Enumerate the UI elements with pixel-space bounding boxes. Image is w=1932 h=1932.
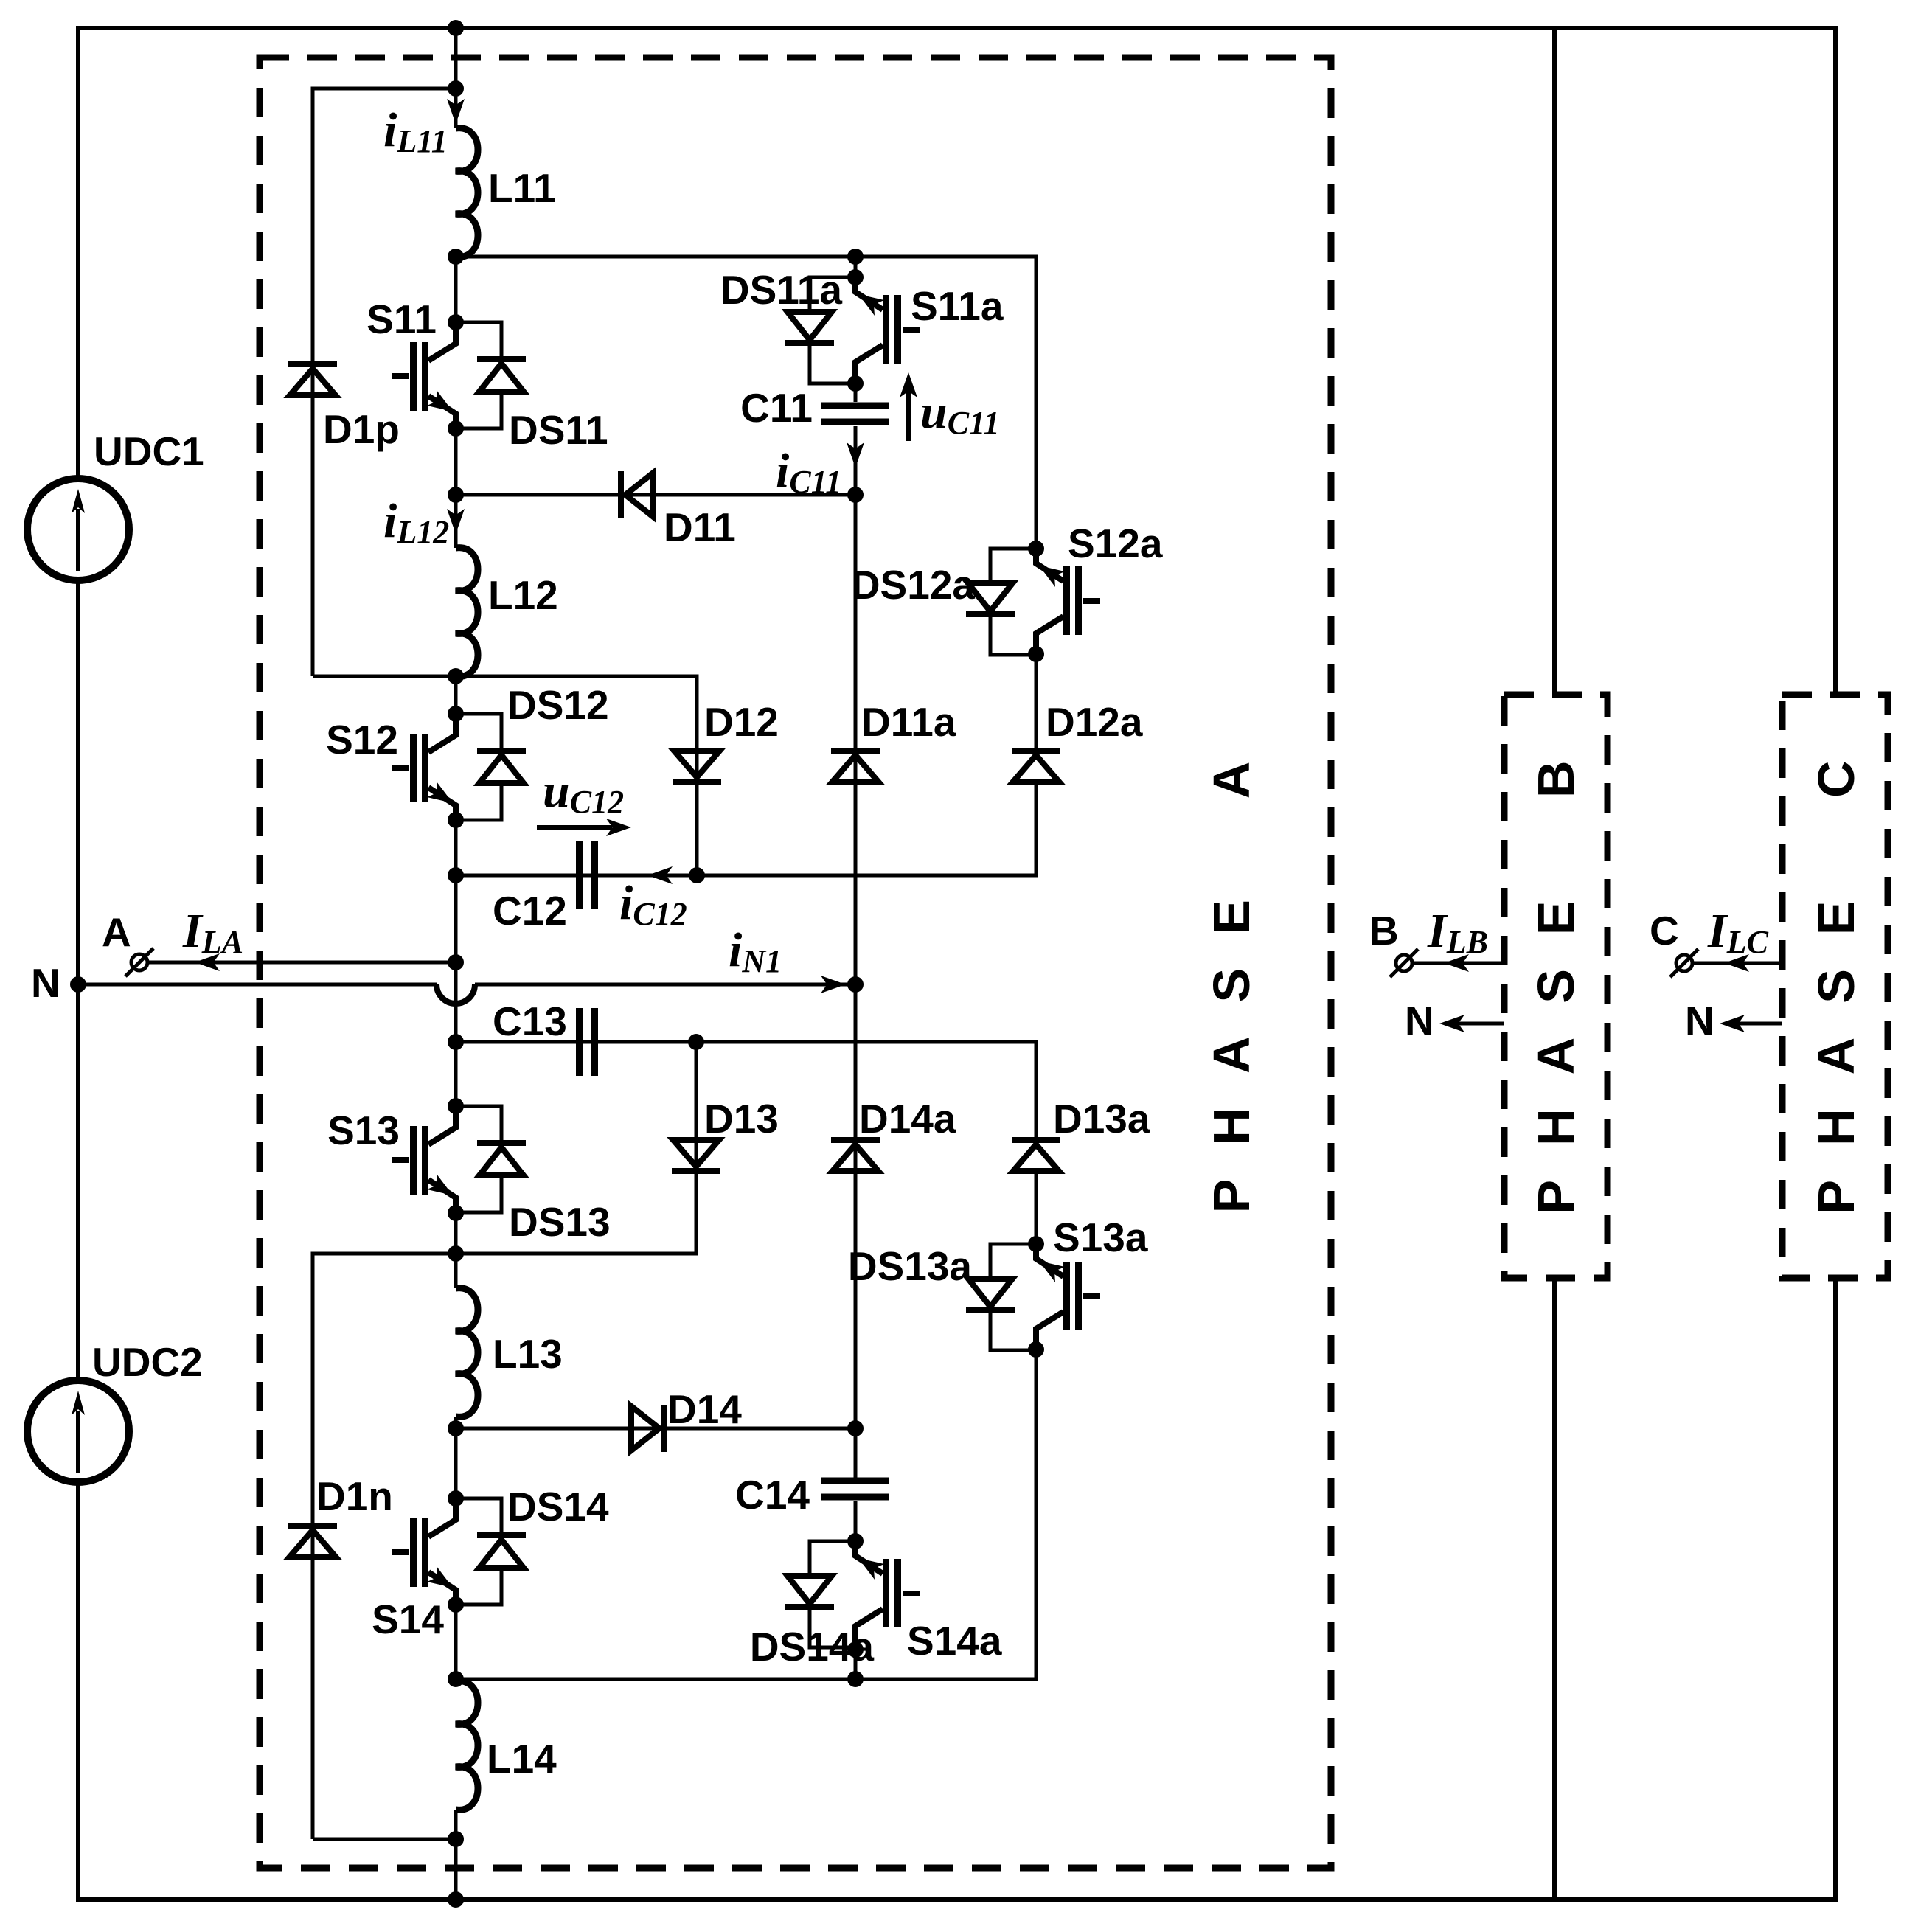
node S12a top — [1028, 541, 1044, 557]
wire phase B output — [1412, 962, 1504, 965]
transistor S12a — [1036, 549, 1100, 655]
svg-text:DS11a: DS11a — [720, 267, 843, 313]
svg-text:L11: L11 — [488, 165, 556, 211]
wire N rail left — [78, 983, 437, 987]
transistor S13 — [392, 1106, 456, 1212]
svg-text:DS12: DS12 — [507, 682, 609, 728]
diode DS11a loop — [810, 277, 855, 383]
node C13 left — [448, 1034, 464, 1050]
node S14 collector — [448, 1490, 464, 1507]
svg-text:D1p: D1p — [323, 406, 400, 452]
svg-text:S13: S13 — [327, 1108, 400, 1153]
node S11a top (DS11a) — [847, 269, 864, 285]
svg-text:D1n: D1n — [316, 1473, 393, 1519]
svg-text:B: B — [1369, 908, 1399, 953]
wire L12 to S12 — [454, 676, 458, 714]
svg-text:C12: C12 — [493, 888, 567, 934]
arrow I_LC (left) — [1724, 954, 1749, 972]
node bottom bus junction — [448, 1891, 464, 1908]
wire S12 to C12 node — [454, 820, 458, 875]
diode D11a — [831, 751, 880, 782]
transistor S14a — [855, 1541, 920, 1647]
arrow i_N1 (right) — [821, 976, 846, 993]
transistor S14 — [392, 1498, 456, 1605]
inductor L13 — [456, 1288, 478, 1417]
wire D11 node to L12 — [454, 495, 458, 548]
arrow i_C12 (left) — [647, 866, 673, 884]
node S12 emitter — [448, 812, 464, 828]
wire phase B column — [1552, 28, 1557, 1900]
capacitor C14 — [821, 1481, 889, 1497]
arrow u_C12 (right) — [537, 825, 612, 830]
svg-text:DS13a: DS13a — [848, 1243, 973, 1289]
arrow N phase C head — [1720, 1015, 1745, 1032]
svg-text:S12: S12 — [326, 717, 398, 762]
svg-text:PHASE A: PHASE A — [1203, 728, 1260, 1214]
node C13 / D13 — [688, 1034, 704, 1050]
PHASE C dashed box — [1782, 695, 1888, 1278]
wire left border (UDC column mid) — [76, 580, 80, 1380]
node S14 emitter — [448, 1596, 464, 1613]
wire phase C output — [1692, 962, 1782, 965]
svg-text:D11a: D11a — [861, 699, 956, 745]
svg-text:D13a: D13a — [1053, 1096, 1150, 1142]
wire S14 to bottom rail — [454, 1605, 458, 1681]
diode D12 — [673, 751, 721, 782]
svg-text:D14: D14 — [667, 1386, 742, 1432]
wire D14 node to C14 — [854, 1428, 858, 1478]
svg-text:DS12a: DS12a — [851, 562, 976, 608]
node bottom rail junction — [448, 1671, 464, 1687]
transistor S11 — [392, 322, 456, 428]
terminal A — [131, 954, 147, 970]
inductor L14 — [456, 1681, 478, 1810]
svg-text:L14: L14 — [487, 1736, 557, 1782]
wire L11 bottom to S11 — [454, 257, 458, 322]
wire neutral column lower — [854, 984, 858, 1428]
svg-text:C13: C13 — [493, 998, 567, 1044]
svg-text:S11: S11 — [366, 296, 437, 342]
svg-text:S12a: S12a — [1068, 521, 1163, 566]
arrow u_C11 head — [900, 372, 917, 397]
source UDC1 — [27, 479, 129, 580]
node top bus / branch — [448, 20, 464, 36]
node L13 bottom / D14 row — [448, 1420, 464, 1436]
diode D11 — [621, 471, 653, 518]
wire D11 row — [456, 493, 855, 497]
node D11 right (C11 column) — [847, 487, 864, 503]
svg-text:C14: C14 — [735, 1472, 810, 1518]
wire C14 to S14a — [854, 1501, 858, 1541]
transistor S12 — [392, 714, 456, 820]
arrow i_L11 (down) — [447, 99, 465, 124]
svg-text:S14a: S14a — [907, 1618, 1002, 1664]
node N at left border — [70, 976, 86, 993]
svg-text:A: A — [102, 909, 131, 955]
wire S11a collector stub — [854, 257, 858, 277]
wire C12 row — [456, 782, 1036, 875]
diode DS13a loop — [990, 1244, 1036, 1350]
wire D13a to S13a — [1035, 1171, 1038, 1244]
arrow I_LA (left) — [195, 953, 220, 971]
terminal C — [1676, 955, 1692, 971]
diode D13a — [1012, 1140, 1060, 1171]
diode D1p — [288, 364, 337, 395]
node aux rail / S11a — [847, 249, 864, 265]
transistor S13a — [1036, 1244, 1100, 1350]
node D14 right (C14 column) — [847, 1420, 864, 1436]
svg-text:L12: L12 — [488, 572, 558, 618]
svg-text:D12a: D12a — [1046, 699, 1143, 745]
wire C13 row — [456, 1042, 1036, 1140]
PHASE B dashed box — [1504, 695, 1608, 1278]
svg-text:UDC2: UDC2 — [92, 1339, 203, 1385]
wire bottom rail — [456, 1349, 1036, 1679]
wire S14a to bottom rail — [854, 1650, 858, 1679]
wire N hop arc — [437, 984, 475, 1004]
wire C13 node to S13 — [454, 1042, 458, 1106]
wire S11a to C11 — [854, 383, 858, 402]
node S13a bottom — [1028, 1341, 1044, 1358]
wire L14 to bottom bus — [454, 1810, 458, 1900]
diode D12a — [1012, 751, 1060, 782]
svg-text:S13a: S13a — [1053, 1215, 1148, 1260]
node upper loop branch — [448, 80, 464, 97]
svg-text:DS14: DS14 — [507, 1484, 609, 1529]
svg-text:DS11: DS11 — [509, 407, 608, 453]
svg-text:N: N — [1685, 998, 1714, 1043]
wire N rail right — [475, 983, 855, 987]
capacitor C11 — [821, 406, 889, 422]
node C12 left — [448, 867, 464, 883]
svg-text:C11: C11 — [740, 385, 813, 431]
wire N into phase C — [1727, 1022, 1782, 1026]
svg-text:N: N — [31, 960, 60, 1006]
PHASE A dashed box — [260, 58, 1331, 1868]
wire D14 row — [456, 1427, 855, 1431]
wire L13 node to S14 — [454, 1428, 458, 1498]
svg-text:S14: S14 — [372, 1596, 444, 1642]
svg-text:D13: D13 — [704, 1096, 779, 1142]
wire S11 to D11 node — [454, 428, 458, 495]
wire phase A output — [148, 961, 456, 965]
arrow u_C11 line — [906, 380, 911, 441]
diode D14a — [831, 1140, 880, 1171]
wire N into phase B — [1447, 1022, 1504, 1026]
diode DS12a loop — [990, 549, 1036, 655]
inductor L11 — [456, 128, 478, 257]
node S11 emitter — [448, 420, 464, 437]
arrow i_C11 (down) — [847, 442, 864, 468]
wire main branch: bus to L11 — [454, 28, 458, 128]
wire lower rail — [313, 1042, 696, 1254]
wire node to A-wire — [454, 875, 458, 1042]
capacitor C12 — [580, 841, 594, 909]
svg-text:UDC1: UDC1 — [94, 428, 204, 474]
diode DS12 loop — [456, 714, 501, 820]
node S12a bottom — [1028, 646, 1044, 662]
diode D1n — [288, 1526, 337, 1557]
node S14a top — [847, 1533, 864, 1549]
svg-text:D12: D12 — [704, 699, 779, 745]
diode D13 — [672, 1140, 720, 1171]
wire bottom DC- bus with side borders — [78, 1278, 1835, 1900]
arrow i_L12 (down) — [447, 509, 465, 534]
node S11 collector — [448, 314, 464, 330]
diode DS14a loop — [810, 1541, 855, 1647]
svg-text:PHASE B: PHASE B — [1527, 726, 1585, 1214]
diode D14 — [631, 1405, 664, 1452]
wire L13 coil to D14 node — [454, 1417, 458, 1428]
node lower rail junction — [448, 1245, 464, 1262]
diode DS14 loop — [456, 1498, 501, 1605]
node N / neutral column — [847, 976, 864, 993]
wire lower loop horizontal — [313, 1838, 456, 1841]
svg-text:L13: L13 — [493, 1331, 563, 1377]
node L12 bottom — [448, 668, 464, 684]
svg-text:PHASE C: PHASE C — [1807, 726, 1865, 1214]
node S13 collector — [448, 1098, 464, 1114]
svg-text:S11a: S11a — [911, 283, 1004, 329]
source UDC2 — [27, 1380, 129, 1482]
node S14a / bottom rail — [847, 1671, 864, 1687]
node C12 / D12 — [689, 867, 705, 883]
node D11 left — [448, 487, 464, 503]
node L14 bottom — [448, 1831, 464, 1847]
node S11a bottom — [847, 375, 864, 392]
arrow I_LB (left) — [1444, 954, 1469, 972]
node S14a bottom — [847, 1641, 864, 1658]
wire top DC+ bus with side borders — [78, 28, 1835, 695]
svg-text:D14a: D14a — [859, 1096, 956, 1142]
terminal B — [1396, 955, 1412, 971]
svg-text:D11: D11 — [664, 504, 736, 550]
wire aux top rail to S12a branch — [456, 257, 1036, 549]
wire C11 to D11 node — [854, 426, 858, 495]
capacitor C13 — [580, 1008, 594, 1076]
svg-text:N: N — [1405, 998, 1434, 1043]
node A-wire junction — [448, 954, 464, 970]
node L11 bottom — [448, 249, 464, 265]
inductor L12 — [456, 548, 478, 677]
diode DS11 loop — [456, 322, 501, 428]
arrow u_C12 head — [606, 819, 631, 836]
node S12 collector — [448, 706, 464, 722]
node S13a top — [1028, 1236, 1044, 1252]
svg-text:C: C — [1650, 908, 1679, 953]
svg-text:DS13: DS13 — [509, 1199, 611, 1245]
arrow N phase B head — [1439, 1015, 1464, 1032]
diode DS13 loop — [456, 1106, 501, 1212]
node S13 emitter — [448, 1205, 464, 1221]
wire neutral column upper — [854, 495, 858, 984]
wire lower loop — [313, 1254, 456, 1839]
wire S12a to D12a — [1035, 654, 1038, 751]
wire L12 bottom rail — [313, 676, 697, 875]
wire S13 to lower rail — [454, 1213, 458, 1288]
wire upper loop — [313, 88, 456, 676]
transistor S11a — [855, 277, 920, 383]
